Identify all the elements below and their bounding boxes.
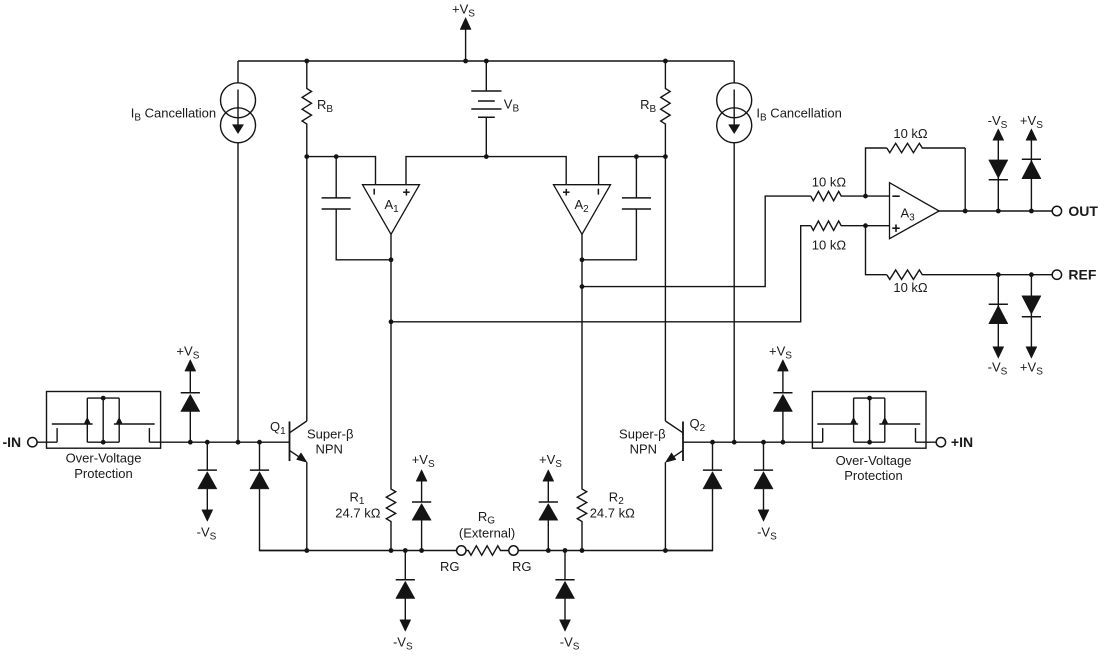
terminal REF — [1052, 270, 1061, 279]
svg-text:NPN: NPN — [630, 441, 657, 456]
capacitor C2 — [635, 157, 637, 198]
clamp diode -IN to +VS — [189, 412, 191, 443]
node A1 output to A3 branch — [389, 319, 394, 324]
node -IN rail +VS clamp — [188, 440, 193, 445]
svg-text:NPN: NPN — [315, 441, 342, 456]
wire second rail center segment — [406, 157, 566, 185]
svg-text:10 kΩ: 10 kΩ — [893, 126, 928, 141]
op-amp A1 — [363, 185, 420, 235]
diode Q2 base to bottom rail — [712, 442, 714, 470]
wire feedback to A3 output — [964, 148, 966, 211]
node OUT clamp diode right — [1029, 209, 1034, 214]
node A2 output / C2 — [580, 257, 585, 262]
clamp diode OUT to +VS — [1030, 140, 1032, 211]
node RB left / top rail — [304, 59, 309, 64]
wire -IN to protection box — [37, 441, 57, 443]
transistor Q1 — [289, 422, 291, 462]
node A3 minus input — [863, 194, 868, 199]
svg-text:24.7 kΩ: 24.7 kΩ — [590, 505, 635, 520]
wire A1 output / resistor R1 branch — [386, 234, 395, 550]
node top rail +VS — [463, 59, 468, 64]
wire A1 output to A3 non-inverting input — [391, 226, 811, 322]
svg-text:Protection: Protection — [74, 466, 133, 481]
svg-text:-IN: -IN — [3, 434, 22, 450]
node cap left / rail2 — [334, 154, 339, 159]
node A3 plus input — [863, 223, 868, 228]
clamp diode -IN to -VS — [206, 442, 208, 470]
node bottom rail +VS left — [419, 548, 424, 553]
resistor 10k to A3 inverting input — [811, 191, 890, 200]
wire A3 feedback — [866, 148, 887, 196]
node REF clamp diode left — [996, 272, 1001, 277]
node Q2 base — [710, 440, 715, 445]
node RB right / top rail — [663, 59, 668, 64]
node bottom rail -VS right — [563, 548, 568, 553]
current source IB cancellation right — [717, 83, 752, 118]
terminal -IN — [28, 438, 37, 447]
svg-text:24.7 kΩ: 24.7 kΩ — [335, 505, 380, 520]
clamp diode bottom to +VS left — [421, 520, 423, 550]
node +IN rail IB line — [732, 440, 737, 445]
resistor RB left — [302, 61, 311, 157]
resistor 10k A3 feedback — [887, 143, 965, 152]
node Q1 emitter / bottom rail — [304, 548, 309, 553]
node A3 output feedback junction — [963, 209, 968, 214]
node RB right / rail2 — [663, 154, 668, 159]
node R1 / bottom rail — [389, 548, 394, 553]
op-amp A2 — [554, 185, 611, 235]
wire protection box to +IN — [916, 441, 937, 443]
clamp diode OUT to -VS — [997, 140, 999, 211]
terminal RG right — [509, 546, 518, 555]
svg-text:Super-β: Super-β — [619, 427, 666, 442]
resistor 10k REF — [887, 270, 1052, 279]
current source IB cancellation left — [221, 83, 256, 118]
node A1 output / C1 — [389, 257, 394, 262]
+VS supply arrow top — [460, 18, 471, 30]
capacitor C1 — [335, 157, 337, 198]
resistor 10k to A3 non-inverting input — [811, 221, 890, 230]
wire left IB cancellation drop — [237, 61, 239, 83]
svg-text:OUT: OUT — [1068, 203, 1098, 219]
node R2 / bottom rail — [580, 548, 585, 553]
svg-text:10 kΩ: 10 kΩ — [812, 174, 847, 189]
svg-text:RG: RG — [440, 559, 460, 574]
svg-text:REF: REF — [1068, 267, 1096, 283]
svg-text:10 kΩ: 10 kΩ — [893, 280, 928, 295]
svg-text:10 kΩ: 10 kΩ — [812, 238, 847, 253]
node cap right / rail2 — [634, 154, 639, 159]
node Q1 base — [257, 440, 262, 445]
over-voltage protection box left — [47, 392, 161, 449]
clamp diode REF to +VS — [1030, 275, 1032, 347]
node RB left / rail2 — [304, 154, 309, 159]
node +IN rail +VS clamp — [781, 440, 786, 445]
diode Q1 base to bottom rail — [259, 442, 261, 470]
wire bottom rail right — [518, 550, 712, 552]
node OUT clamp diode left — [996, 209, 1001, 214]
wire second rail left segment — [307, 157, 376, 185]
svg-text:Super-β: Super-β — [307, 427, 354, 442]
wire top supply rail — [238, 60, 734, 62]
wire A3 plus node to REF — [866, 226, 887, 275]
terminal OUT — [1052, 206, 1061, 215]
terminal +IN — [936, 438, 945, 447]
clamp diode REF to -VS — [997, 275, 999, 347]
clamp diode bottom to +VS right — [547, 520, 549, 550]
node Q2 emitter / bottom rail — [663, 548, 668, 553]
wire second rail right segment — [599, 157, 666, 185]
protection FET pair left — [56, 428, 58, 442]
wire bottom rail left — [260, 550, 457, 552]
node bottom rail +VS right — [546, 548, 551, 553]
resistor RG external — [466, 546, 508, 555]
svg-text:Over-Voltage: Over-Voltage — [66, 451, 142, 466]
node -IN rail -VS clamp — [205, 440, 210, 445]
node bottom rail -VS left — [403, 548, 408, 553]
resistor RB right — [661, 61, 670, 157]
wire +IN rail — [683, 441, 823, 443]
svg-text:(External): (External) — [459, 526, 515, 541]
protection FET pair right — [822, 428, 824, 442]
wire A2 output to A3 inverting input — [582, 196, 811, 287]
node -IN rail IB line — [236, 440, 241, 445]
svg-text:Protection: Protection — [844, 468, 903, 483]
clamp diode +IN to +VS — [782, 412, 784, 443]
node REF clamp diode right — [1029, 272, 1034, 277]
transistor Q2 — [682, 422, 684, 462]
node A2 output to A3 branch — [580, 284, 585, 289]
wire right IB to +IN rail — [733, 143, 735, 442]
svg-text:RG: RG — [512, 559, 532, 574]
wire -IN rail — [149, 441, 289, 443]
terminal RG left — [457, 546, 466, 555]
wire A3 output to OUT — [939, 210, 1052, 212]
node +IN rail -VS clamp — [761, 440, 766, 445]
clamp diode bottom to -VS left — [404, 551, 406, 580]
battery VB — [484, 59, 489, 64]
wire A2 output / resistor R2 branch — [577, 234, 586, 550]
svg-text:Over-Voltage: Over-Voltage — [836, 453, 912, 468]
node VB / rail2 — [484, 154, 489, 159]
clamp diode bottom to -VS right — [564, 551, 566, 580]
wire left IB to -IN rail — [237, 143, 239, 442]
svg-text:+IN: +IN — [951, 434, 973, 450]
op-amp A3 — [890, 183, 940, 239]
over-voltage protection box right — [812, 392, 926, 449]
clamp diode +IN to -VS — [763, 442, 765, 470]
wire right IB cancellation drop — [733, 61, 735, 83]
